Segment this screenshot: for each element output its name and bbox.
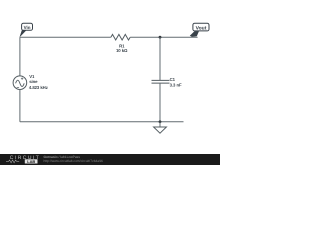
ground	[154, 122, 167, 133]
svg-text:Vin: Vin	[24, 25, 31, 30]
junction dot: node Vout at top of capacitor branch	[159, 36, 162, 39]
svg-text:sine: sine	[29, 79, 38, 84]
footer CircuitLab logo	[6, 155, 40, 164]
svg-text:Vout: Vout	[196, 25, 207, 31]
net flag Vout	[190, 23, 209, 37]
wire: capacitor branch from C1 bottom plate to bottom rail	[159, 83, 161, 122]
wire: top rail from Vin corner to resistor R1	[20, 36, 111, 38]
wire: capacitor branch from top rail to C1 top plate	[159, 37, 161, 80]
resistor R1	[111, 34, 130, 40]
wire: left rail from Vin corner down to V1 top	[19, 37, 21, 76]
wire: left rail from V1 bottom down to bottom rail	[19, 90, 21, 122]
svg-text:3.3 nF: 3.3 nF	[170, 82, 182, 87]
footer bar	[0, 154, 220, 165]
svg-text:10 kΩ: 10 kΩ	[116, 48, 128, 53]
svg-text:C1: C1	[170, 77, 176, 82]
voltage source V1 (sine)	[13, 76, 27, 90]
capacitor C1	[152, 80, 170, 83]
wire: top rail from resistor R1 to Vout end	[130, 36, 197, 38]
wire: bottom rail	[20, 121, 184, 123]
net flag Vin	[20, 23, 33, 37]
svg-text:4.823 kHz: 4.823 kHz	[29, 85, 48, 90]
svg-text:LAB: LAB	[27, 159, 35, 164]
svg-text:http://www.circuitlab.com/circ: http://www.circuitlab.com/circuit/7vb4a9…	[44, 159, 104, 163]
junction dot: bottom rail at ground branch	[159, 120, 162, 123]
